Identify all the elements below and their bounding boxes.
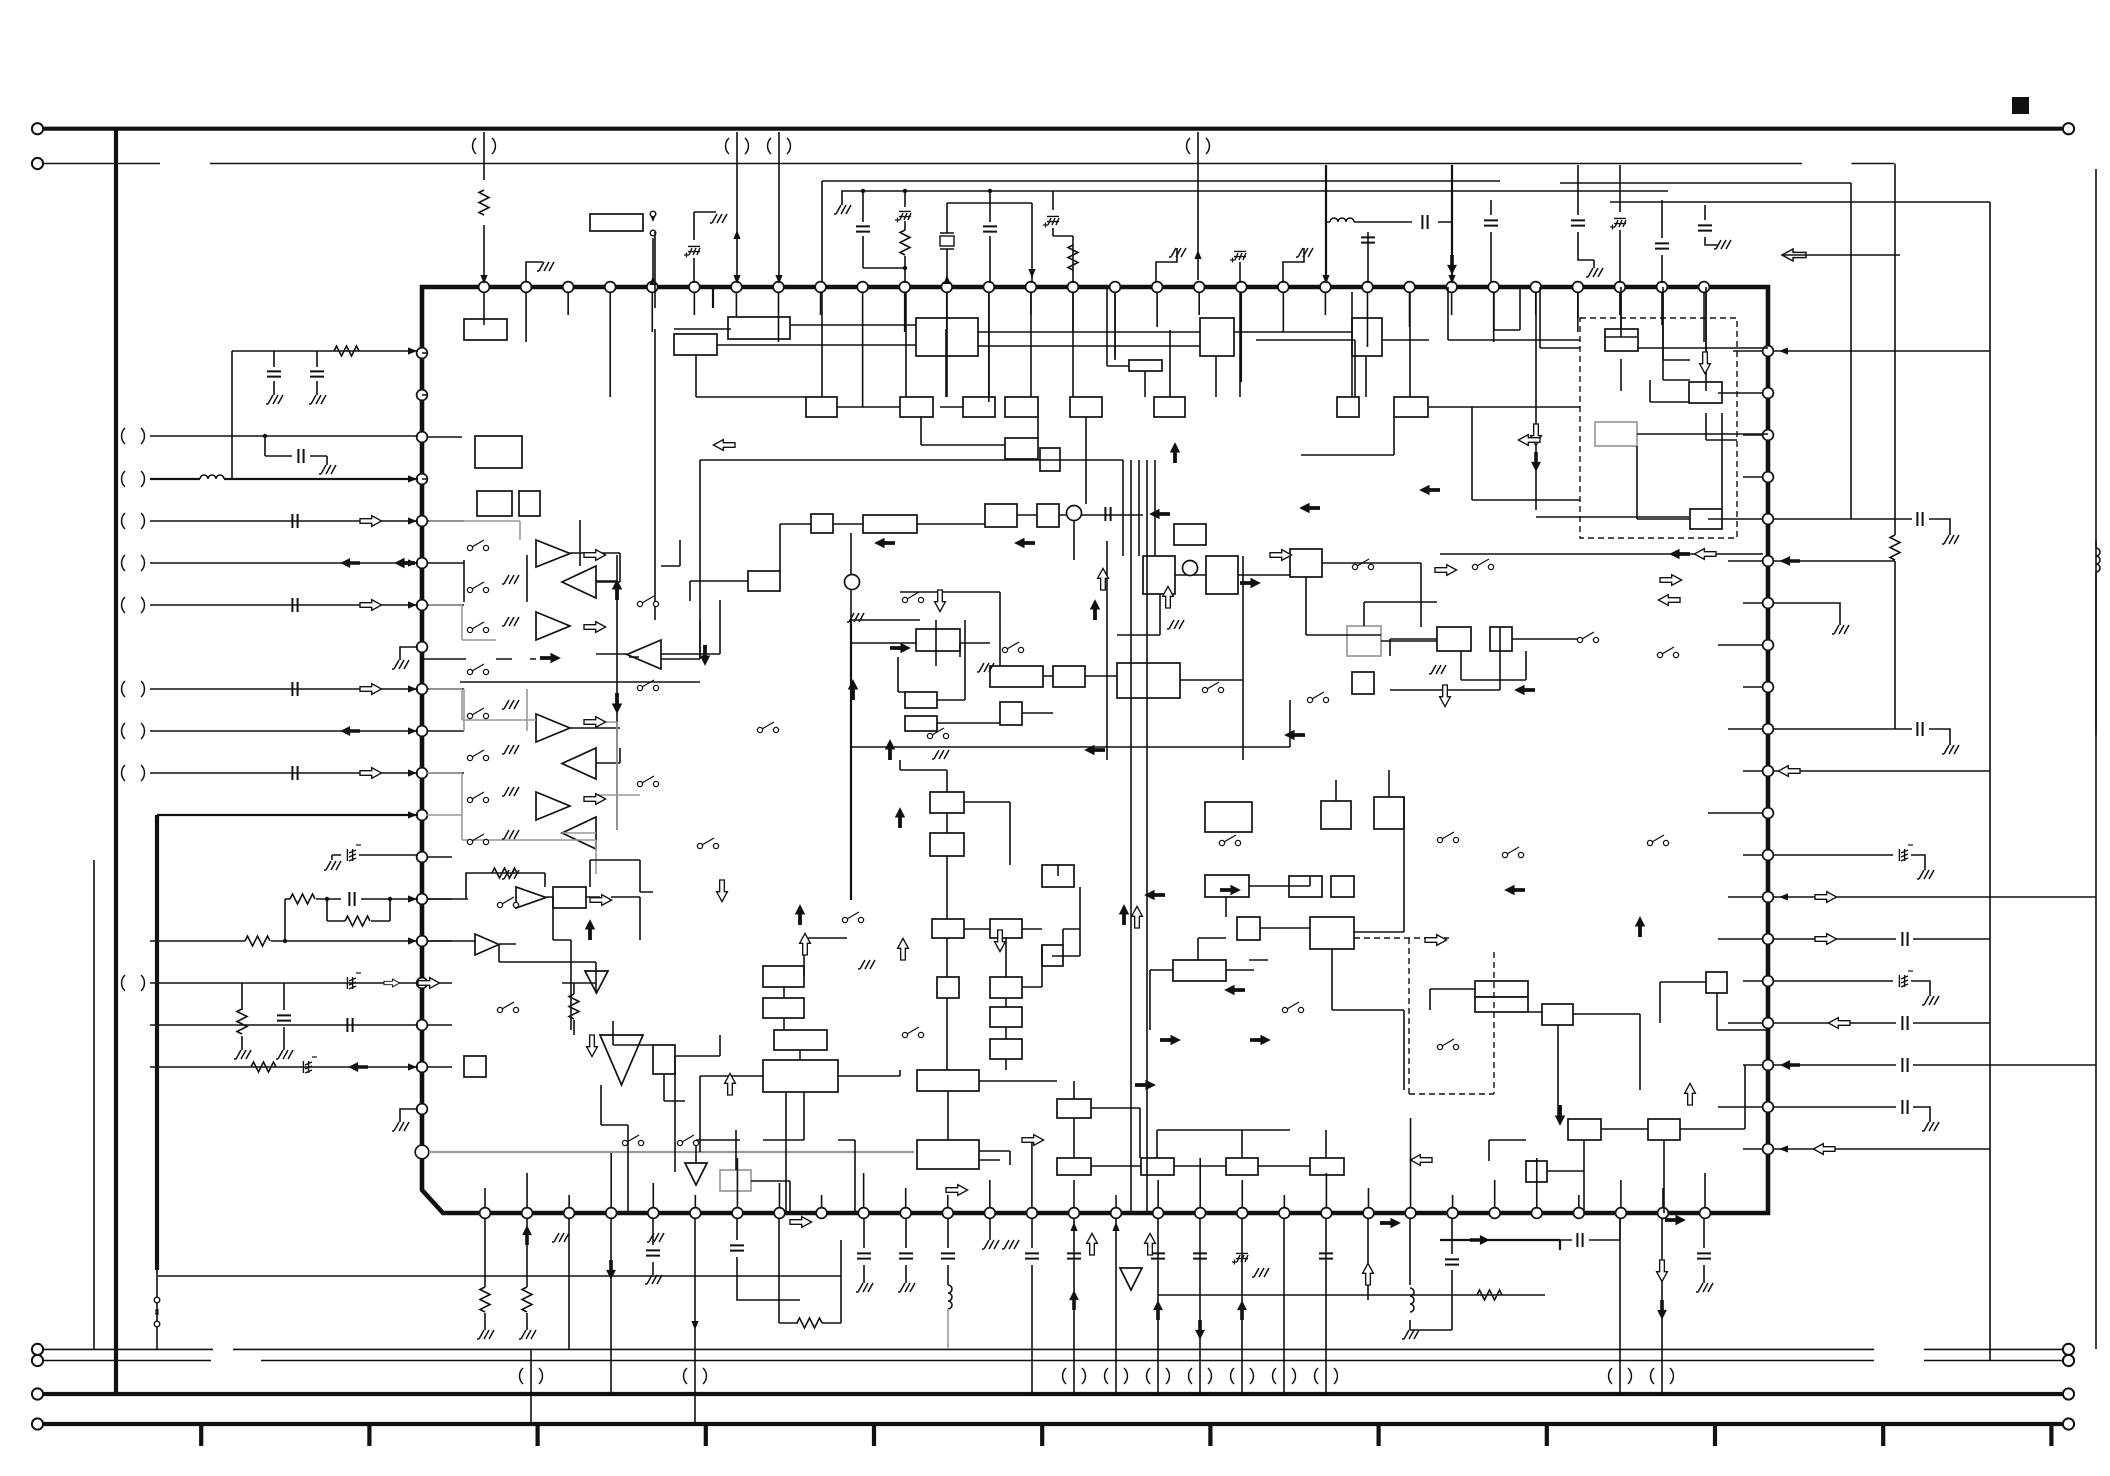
cap right row1065 bbox=[1774, 1064, 2096, 1066]
top-right corner rail C bbox=[2095, 169, 2097, 1349]
block B67 bbox=[1141, 1158, 1174, 1175]
long cross rails bbox=[460, 460, 1500, 770]
wire bpin1620 bbox=[1619, 1218, 1621, 1394]
cap C-top5 polarized bbox=[1239, 262, 1241, 283]
switch S20 bbox=[902, 1032, 907, 1037]
switch S30 bbox=[1577, 637, 1582, 642]
cap C-top10 bbox=[1661, 200, 1663, 283]
hollow arrow H8 bbox=[1163, 586, 1174, 608]
ground rail B bbox=[834, 205, 851, 214]
cap gnd bpin906 bbox=[905, 1218, 907, 1283]
block B27 bbox=[985, 504, 1017, 527]
terminal circle top-right A bbox=[2063, 123, 2074, 134]
hollow arrow H12 bbox=[717, 880, 728, 902]
signal arrow F2 bbox=[700, 645, 710, 666]
switch S7 bbox=[467, 797, 472, 802]
cap right row729 bbox=[1774, 729, 1950, 745]
op-amp A12 bbox=[600, 1035, 643, 1085]
block B40 bbox=[1290, 549, 1322, 577]
hollow arrow H22 bbox=[1660, 575, 1682, 586]
switch S6 bbox=[467, 755, 472, 760]
junction node C bbox=[1067, 506, 1082, 521]
block B38 bbox=[1174, 524, 1206, 545]
terminal circle bottom-right B bbox=[2063, 1355, 2074, 1366]
hollow arrow H29 bbox=[418, 978, 440, 989]
wire mesh top A bbox=[655, 232, 1429, 620]
switch S34 bbox=[1647, 840, 1652, 845]
switch S1 bbox=[467, 545, 472, 550]
switch S28 bbox=[1437, 1044, 1442, 1049]
terminal circle bottom-left C bbox=[32, 1388, 43, 1399]
cap C-mid bbox=[1105, 507, 1110, 521]
switch S12 bbox=[637, 685, 642, 690]
cap right row1107 bbox=[1774, 1107, 1930, 1122]
wire bpin1074 bbox=[1073, 1218, 1075, 1394]
wire mesh lower B bbox=[553, 860, 675, 1172]
vertical feed x157 bbox=[155, 815, 159, 1270]
res stub bpin485 bbox=[484, 1218, 486, 1330]
switch S18 bbox=[927, 733, 932, 738]
block B13 bbox=[1154, 397, 1185, 417]
wire riser x737 bbox=[736, 132, 738, 280]
switch S2 bbox=[467, 587, 472, 592]
signal arrow F30 bbox=[1170, 442, 1180, 463]
wire left pin stubs bbox=[422, 353, 464, 1067]
switch S32 bbox=[1472, 564, 1477, 569]
hollow arrow H21 bbox=[1022, 1135, 1044, 1146]
op-amp A6 bbox=[562, 748, 596, 779]
ground sw cluster A bbox=[502, 575, 519, 584]
ground pin row647 bbox=[400, 647, 418, 660]
signal arrow F33 bbox=[1380, 1218, 1401, 1228]
wire left row773 bbox=[150, 772, 418, 774]
hollow arrow H3 bbox=[584, 622, 606, 633]
block B6 bbox=[1352, 318, 1382, 356]
block B14 bbox=[1337, 397, 1359, 417]
cap right row519 bbox=[1774, 519, 1950, 535]
signal arrow F24 bbox=[1665, 1215, 1686, 1225]
hollow arrow H14 bbox=[800, 933, 811, 955]
IC left pin column bbox=[417, 348, 428, 1115]
coil feed row479 bbox=[150, 478, 418, 480]
block B26 bbox=[863, 515, 917, 533]
block B65 bbox=[1057, 1099, 1091, 1118]
wire riser x1452 bold bbox=[1451, 165, 1453, 280]
cap C-top9 polarized bbox=[1619, 165, 1621, 283]
wire mesh top E bbox=[1256, 340, 1580, 500]
cap C-top4 polarized bbox=[1053, 191, 1073, 283]
op-amp A2 bbox=[562, 566, 596, 598]
block B16 bbox=[1005, 438, 1038, 459]
switch S19 bbox=[842, 917, 847, 922]
ground pin row1109 bbox=[400, 1109, 418, 1122]
block OSC top-left bbox=[590, 214, 643, 231]
switch S31 bbox=[1657, 652, 1662, 657]
hollow arrow H4 bbox=[584, 717, 606, 728]
wire left row689 bbox=[150, 688, 418, 690]
block B43 bbox=[1437, 627, 1471, 651]
block B10 bbox=[963, 397, 995, 417]
signal arrow F25 bbox=[1514, 685, 1535, 695]
hollow arrow H13 bbox=[590, 895, 612, 906]
block B39 bbox=[1206, 556, 1238, 594]
block B56 bbox=[932, 919, 964, 938]
hollow arrow H19 bbox=[995, 930, 1006, 952]
wire right row351 bbox=[1774, 350, 1990, 352]
block B63 bbox=[917, 1070, 979, 1091]
block B42 bbox=[1352, 672, 1374, 694]
wire mesh right A bbox=[1540, 287, 1737, 440]
IC top pin row bbox=[479, 282, 1710, 293]
switch S8 bbox=[467, 839, 472, 844]
signal arrow F3 bbox=[612, 693, 622, 714]
dashed function box bbox=[1580, 318, 1737, 538]
ground C-top8 bbox=[1593, 260, 1595, 268]
cap C-top11 bbox=[1705, 205, 1718, 245]
wire left row605 bbox=[150, 604, 418, 606]
block B84 bbox=[1706, 972, 1727, 993]
signal arrow F16 bbox=[540, 653, 561, 663]
cap coil bpin948 bbox=[947, 1218, 949, 1285]
cap stub bpin653 bbox=[652, 1218, 654, 1275]
block B74 bbox=[1310, 917, 1354, 949]
signal arrow F1 bbox=[612, 579, 622, 600]
top long rail B bbox=[842, 191, 1668, 205]
black index square bbox=[2012, 97, 2029, 114]
cap left row1025 bbox=[150, 1024, 418, 1026]
wire left row521 bbox=[150, 520, 418, 522]
switch S17 bbox=[1002, 647, 1007, 652]
wire left row899 bbox=[285, 899, 418, 921]
solid arrow row731 bbox=[340, 726, 360, 736]
block B53 bbox=[930, 792, 964, 813]
block B41 bbox=[1347, 626, 1381, 656]
hollow arrow H24 bbox=[1518, 435, 1540, 446]
block B17 bbox=[1040, 448, 1060, 471]
block B31 bbox=[990, 666, 1043, 687]
wire mesh center A bbox=[690, 515, 1421, 680]
wire top pin stubs bbox=[484, 292, 1704, 407]
ground lower cluster bbox=[552, 1233, 569, 1242]
block B5 bbox=[1200, 318, 1234, 356]
gray mesh A bbox=[427, 773, 596, 874]
wire mesh lower C bbox=[700, 938, 900, 1213]
bold distribution rails bbox=[850, 620, 852, 900]
op-amp A13 bbox=[685, 1163, 707, 1185]
block B52 bbox=[763, 1060, 838, 1092]
cap left row521 bbox=[292, 514, 297, 528]
hollow arrow H9 bbox=[1440, 685, 1451, 707]
hollow arrow H17 bbox=[790, 1217, 812, 1228]
block B57 bbox=[990, 919, 1022, 938]
caps to ground row353 bbox=[232, 351, 317, 479]
block B50 bbox=[763, 998, 804, 1018]
op-amp A4 bbox=[627, 640, 661, 669]
double-head test riser x653 bbox=[652, 238, 654, 280]
top-right corner rail B bbox=[1610, 202, 1990, 1360]
block B60 bbox=[990, 977, 1022, 998]
switch S21 bbox=[622, 1140, 627, 1145]
terminal circle bottom-left B bbox=[32, 1355, 43, 1366]
wire right row561 bbox=[1774, 560, 1895, 562]
IC U1 outline bbox=[422, 287, 1768, 1213]
hollow arrow H25 bbox=[1425, 935, 1447, 946]
op-amp A8 bbox=[562, 817, 596, 849]
hollow arrow H15 bbox=[587, 1035, 598, 1057]
connector gap x737 bbox=[726, 138, 749, 154]
hollow arrow H1 bbox=[713, 440, 735, 451]
signal arrow F10 bbox=[1084, 745, 1105, 755]
block B59 bbox=[937, 977, 959, 998]
bold feed row815 bbox=[157, 814, 418, 816]
scale ruler line bbox=[44, 1422, 2063, 1426]
op-amp A1 bbox=[536, 540, 570, 567]
wire mesh center D bbox=[1306, 577, 1580, 680]
cap gnd bpin864 bbox=[863, 1218, 865, 1283]
res stub bpin527 bbox=[526, 1218, 528, 1330]
block B29 bbox=[748, 571, 780, 591]
wire bpin1326 bbox=[1325, 1218, 1327, 1394]
hollow arrow H11 bbox=[1435, 565, 1457, 576]
cap right row855 polarized bbox=[1774, 855, 1925, 870]
cap stub bpin737 bbox=[737, 1218, 800, 1300]
signal arrow F17 bbox=[1135, 1080, 1156, 1090]
feedback row wires bbox=[427, 897, 640, 993]
ground stub pin1156 bbox=[1156, 248, 1177, 283]
signal arrow F5 bbox=[848, 679, 858, 700]
wire bottom pin stubs bbox=[485, 1118, 1705, 1208]
op-amp A11 bbox=[585, 971, 608, 993]
signal arrow F28 bbox=[1299, 503, 1320, 513]
ruler tick marks bbox=[201, 1424, 2051, 1446]
signal arrow F15 bbox=[890, 643, 911, 653]
res loop row899 bbox=[466, 873, 545, 899]
signal arrow F32 bbox=[1014, 538, 1035, 548]
block B80 bbox=[1542, 1004, 1573, 1025]
switch S25 bbox=[1352, 564, 1357, 569]
signal arrow F4 bbox=[885, 739, 895, 760]
signal arrow F9 bbox=[1090, 599, 1100, 620]
wire bpin1284 bbox=[1283, 1218, 1285, 1394]
vertical feed x94 bbox=[93, 860, 95, 1349]
block B58 bbox=[1042, 945, 1063, 966]
block B2 bbox=[728, 317, 790, 339]
cap right row939 bbox=[1774, 938, 1990, 940]
resistor R mid-left bbox=[573, 983, 575, 1035]
block B75 bbox=[1173, 960, 1226, 981]
wire bpin1116 bbox=[1115, 1218, 1117, 1394]
ground bus line bottom bbox=[44, 1392, 2063, 1396]
junction node B bbox=[1183, 561, 1198, 576]
signal arrow F18 bbox=[1160, 1035, 1181, 1045]
block B33 bbox=[1117, 663, 1180, 698]
cap bpin1032 bbox=[1031, 1218, 1033, 1394]
block B46 bbox=[464, 1056, 486, 1077]
switch S29 bbox=[1282, 1007, 1287, 1012]
resistor right margin bbox=[1894, 164, 1896, 730]
switch S16 bbox=[902, 597, 907, 602]
op-amp A9 bbox=[516, 887, 546, 908]
switch S26 bbox=[1437, 837, 1442, 842]
block B78 bbox=[1475, 981, 1528, 997]
hollow arrow H30 bbox=[1685, 1083, 1696, 1105]
signal arrow F31 bbox=[874, 538, 895, 548]
signal arrow F29 bbox=[1149, 509, 1170, 519]
wire mesh center B bbox=[851, 533, 1053, 723]
wire bpin1158 bbox=[1157, 1218, 1159, 1394]
switch S5 bbox=[467, 713, 472, 718]
wire bpin1242 bbox=[1241, 1218, 1243, 1394]
wire bpin1200 bbox=[1199, 1218, 1201, 1394]
block B19 bbox=[477, 491, 512, 516]
block B11 bbox=[1005, 397, 1038, 417]
block B76 bbox=[1321, 801, 1351, 829]
signal arrow F20 bbox=[1224, 985, 1245, 995]
hollow arrow H5 bbox=[584, 794, 606, 805]
hollow arrow H26 bbox=[1410, 1155, 1432, 1166]
block B44 bbox=[1490, 627, 1512, 651]
hollow arrow H10 bbox=[1270, 550, 1292, 561]
connector gap x1198 bbox=[1187, 138, 1210, 154]
amp cascade feed lines bbox=[464, 520, 720, 830]
block B30 bbox=[916, 629, 960, 651]
block B25 bbox=[811, 514, 833, 533]
cap bpin1704 bbox=[1703, 1218, 1705, 1283]
wire riser x1326 bold bbox=[1325, 165, 1327, 280]
block B3 bbox=[674, 334, 717, 355]
signal arrow F22 bbox=[1635, 916, 1645, 937]
block B61 bbox=[990, 1007, 1022, 1027]
block B83 bbox=[1526, 1161, 1547, 1182]
signal arrow F7 bbox=[585, 919, 595, 940]
cap C-top7 bbox=[1490, 200, 1492, 283]
gray feed from big pin bbox=[429, 1151, 914, 1153]
cap riser pin694 bbox=[694, 212, 716, 283]
wire mesh lower G bbox=[1430, 982, 1768, 1213]
block B1 bbox=[464, 319, 507, 340]
top long rail A bbox=[822, 181, 1500, 282]
block B64 bbox=[917, 1140, 979, 1169]
wire bpin695 bbox=[694, 1218, 696, 1424]
block B70 bbox=[1205, 875, 1249, 897]
wire mesh lower F bbox=[1150, 770, 1404, 1090]
IC right pin column bbox=[1763, 346, 1774, 1155]
wire mesh lower E bbox=[948, 1081, 1326, 1166]
wire right row771 bbox=[1774, 770, 1990, 772]
switch S33 bbox=[1219, 840, 1224, 845]
block B54 bbox=[930, 833, 964, 856]
wire mesh top B bbox=[822, 292, 1410, 397]
op-amp A10 bbox=[475, 934, 499, 955]
connector gap pin1 bbox=[473, 138, 496, 154]
block B12 bbox=[1070, 397, 1102, 417]
signal arrow F21 bbox=[1504, 885, 1525, 895]
ground sw cluster B bbox=[847, 613, 864, 622]
block B36 bbox=[1000, 702, 1022, 725]
cap left row983 bbox=[150, 983, 418, 1050]
block B55 bbox=[1042, 865, 1074, 887]
wire left row731 bbox=[150, 730, 418, 732]
block B8 bbox=[806, 397, 837, 417]
switch S4 bbox=[467, 669, 472, 674]
bold up arrows bundle bbox=[1119, 904, 1129, 925]
block B73 bbox=[1237, 917, 1260, 940]
wire left row353 bbox=[232, 350, 418, 352]
block B69 bbox=[1310, 1158, 1344, 1175]
wire bpin1662 bbox=[1661, 1218, 1663, 1394]
block B48 bbox=[720, 1170, 751, 1191]
wire mesh lower D bbox=[900, 770, 1080, 1081]
cap left row857 bbox=[332, 855, 418, 860]
switch S23 bbox=[1202, 687, 1207, 692]
cap left row605 bbox=[292, 598, 297, 612]
block B68 bbox=[1226, 1158, 1258, 1175]
block B21 bbox=[1605, 329, 1638, 351]
bold rail bottom right bbox=[1440, 1240, 1560, 1250]
LC filter top-right bbox=[1326, 221, 1452, 223]
hollow arrow top-right bbox=[1782, 249, 1806, 261]
cap C-top2 polarized bbox=[904, 191, 906, 283]
block B82 bbox=[1648, 1119, 1680, 1140]
coil right margin bbox=[2095, 540, 2097, 735]
res h under bottom B bbox=[1158, 1294, 1545, 1296]
signal line top second bbox=[44, 163, 1895, 165]
op-amp A14 bbox=[1120, 1268, 1142, 1290]
junction node A bbox=[845, 575, 860, 590]
signal arrow F27 bbox=[1419, 485, 1440, 495]
hollow arrow H2 bbox=[584, 550, 606, 561]
block B62 bbox=[990, 1039, 1022, 1059]
cap C-top3 bbox=[989, 191, 991, 283]
wire riser x779 bbox=[778, 132, 780, 280]
wire right row1149 bbox=[1774, 1148, 1990, 1150]
block B18 bbox=[475, 436, 522, 468]
hollow arrow H23 bbox=[1658, 595, 1680, 606]
switch S3 bbox=[467, 627, 472, 632]
hollow arrow H20 bbox=[946, 1185, 968, 1196]
block B71 bbox=[1289, 876, 1322, 897]
block B85 bbox=[1205, 802, 1252, 832]
gray long rails bbox=[429, 521, 536, 773]
wire right pin stubs bbox=[1708, 351, 1763, 1149]
IC bottom pin row bbox=[480, 1208, 1711, 1219]
wire right row603 bbox=[1774, 603, 1840, 625]
wire bpin611 bbox=[610, 1218, 612, 1394]
terminal circle bottom-right A bbox=[2063, 1344, 2074, 1355]
switch S11 bbox=[637, 601, 642, 606]
block B4 bbox=[916, 318, 978, 356]
op-amp A7 bbox=[536, 792, 570, 820]
wire mesh lower A bbox=[601, 1021, 790, 1213]
block B79 bbox=[1475, 997, 1528, 1012]
block B9 bbox=[900, 397, 933, 417]
hollow arrow H16 bbox=[725, 1073, 736, 1095]
block B47 bbox=[653, 1045, 675, 1074]
power bus line top bbox=[44, 127, 2063, 131]
wire mesh top-right pins bbox=[1440, 287, 1763, 554]
block B7 bbox=[1129, 360, 1162, 371]
top-right corner rail A bbox=[1560, 183, 1851, 519]
switch S15 bbox=[757, 727, 762, 732]
block B34 bbox=[905, 692, 937, 708]
block B51 bbox=[774, 1030, 827, 1050]
wire riser pin1 supply bbox=[483, 132, 485, 280]
cap left row773 bbox=[292, 766, 297, 780]
inline connector x157 bbox=[154, 1297, 160, 1303]
signal arrow F8 bbox=[795, 904, 805, 925]
block B23 bbox=[1595, 422, 1637, 446]
block B37 bbox=[1143, 556, 1175, 594]
